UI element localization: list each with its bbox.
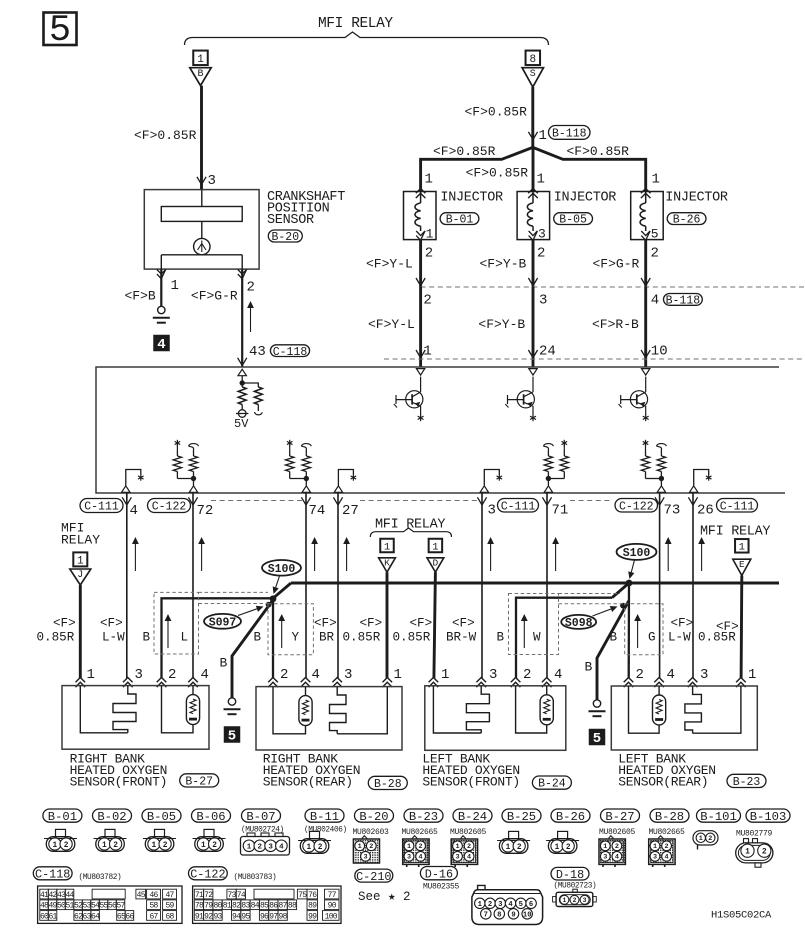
svg-text:(MU803782): (MU803782) <box>79 874 122 882</box>
wire 0.85R to B-28 pin1 <box>386 572 389 678</box>
connector label B-101 <box>697 809 741 822</box>
connector label B-11 <box>305 809 344 822</box>
svg-text:4: 4 <box>615 854 619 862</box>
internal stub <box>334 486 342 493</box>
svg-text:<F>: <F> <box>671 617 694 631</box>
svg-text:61: 61 <box>48 912 57 921</box>
wire (F)B to ground <box>160 269 162 306</box>
svg-text:81: 81 <box>223 902 232 911</box>
connector label B-103 <box>746 809 790 822</box>
svg-text:2: 2 <box>615 843 619 851</box>
shielded cable box (B-24 pins) <box>509 594 559 655</box>
svg-text:B-103: B-103 <box>750 810 787 824</box>
svg-text:2: 2 <box>665 843 669 851</box>
svg-text:1: 1 <box>425 172 433 188</box>
svg-text:4: 4 <box>554 667 562 683</box>
svg-text:<F>: <F> <box>410 617 433 631</box>
svg-text:82: 82 <box>232 902 241 911</box>
svg-text:92: 92 <box>204 912 213 921</box>
svg-text:S097: S097 <box>209 616 237 629</box>
svg-text:98: 98 <box>279 912 288 921</box>
ECU box <box>96 367 785 493</box>
svg-text:3: 3 <box>539 293 547 309</box>
svg-text:MU802605: MU802605 <box>599 828 636 837</box>
svg-text:2: 2 <box>369 843 373 851</box>
connector icon B-11 <box>310 831 320 838</box>
svg-text:4: 4 <box>508 901 513 909</box>
svg-text:D-18: D-18 <box>556 868 584 882</box>
wire to B-23 pin 2 <box>628 583 631 679</box>
splice S100 (right) <box>626 580 633 587</box>
sensor pin 2 <box>238 270 247 275</box>
svg-text:W: W <box>533 631 541 645</box>
svg-text:<F>: <F> <box>53 617 76 631</box>
svg-text:4: 4 <box>201 667 209 683</box>
svg-text:B-28: B-28 <box>655 810 684 824</box>
internal stub <box>480 486 488 493</box>
connector icon B-02 <box>105 829 115 836</box>
svg-text:1: 1 <box>307 844 312 852</box>
transistor Q1 <box>416 369 424 376</box>
svg-text:4: 4 <box>419 854 423 862</box>
pin grid C-122 <box>193 886 341 923</box>
svg-text:<F>: <F> <box>360 617 383 631</box>
svg-text:B-01: B-01 <box>48 810 77 824</box>
connector icon B-27 <box>609 836 614 839</box>
svg-text:83: 83 <box>241 902 250 911</box>
transistor Q2 <box>529 369 537 376</box>
connector label B-28 <box>650 809 689 822</box>
wire injector pin 2 <box>419 240 422 287</box>
svg-text:5V: 5V <box>234 417 249 431</box>
svg-text:B-27: B-27 <box>185 776 213 789</box>
svg-text:1: 1 <box>197 54 204 66</box>
connector label C-118 <box>33 867 72 880</box>
svg-text:<F>: <F> <box>452 617 475 631</box>
svg-text:43: 43 <box>249 344 266 360</box>
svg-text:H1S05C02CA: H1S05C02CA <box>711 910 772 922</box>
wire (F)0.85R to crankshaft sensor <box>200 86 203 190</box>
svg-text:SENSOR: SENSOR <box>267 213 314 228</box>
svg-text:2: 2 <box>258 844 263 852</box>
svg-text:84: 84 <box>251 902 260 911</box>
svg-text:1: 1 <box>506 844 511 852</box>
svg-text:5: 5 <box>593 731 601 747</box>
connector icon B-28 <box>658 836 663 839</box>
svg-text:B: B <box>197 69 203 80</box>
transistor Q3 <box>642 369 650 376</box>
svg-text:<F>Y-L: <F>Y-L <box>366 257 413 272</box>
svg-text:5: 5 <box>228 729 236 745</box>
pin entry chevrons <box>76 678 86 683</box>
svg-text:26: 26 <box>697 503 714 519</box>
triangle J <box>70 569 91 585</box>
svg-text:1: 1 <box>384 541 390 553</box>
wire 0.85R to B-24 pin1 <box>434 572 436 678</box>
svg-text:0.85R: 0.85R <box>698 631 736 645</box>
svg-text:B-28: B-28 <box>374 778 402 791</box>
svg-text:B-118: B-118 <box>552 128 587 141</box>
svg-text:2: 2 <box>636 667 644 683</box>
svg-text:7: 7 <box>484 911 488 919</box>
splice S100 (left) <box>273 583 291 598</box>
internal stub <box>690 486 698 493</box>
svg-text:2: 2 <box>64 842 69 850</box>
svg-text:72: 72 <box>204 891 213 900</box>
svg-text:2: 2 <box>280 667 288 683</box>
svg-text:74: 74 <box>309 503 326 519</box>
svg-text:B-27: B-27 <box>605 810 634 824</box>
svg-text:<F>Y-B: <F>Y-B <box>480 257 527 272</box>
svg-text:3: 3 <box>407 854 411 862</box>
svg-text:1: 1 <box>739 542 745 554</box>
svg-text:See ★ 2: See ★ 2 <box>358 890 411 904</box>
ECU output wires to sensors <box>126 493 128 679</box>
svg-text:MFI RELAY: MFI RELAY <box>700 525 770 540</box>
wire to B-27 pin 2 <box>162 598 274 678</box>
svg-text:C-210: C-210 <box>356 870 391 884</box>
svg-text:1: 1 <box>745 848 750 857</box>
svg-text:6: 6 <box>529 901 533 909</box>
svg-text:5: 5 <box>49 10 71 52</box>
svg-text:2: 2 <box>573 897 577 904</box>
svg-text:4: 4 <box>665 854 669 862</box>
svg-text:2: 2 <box>247 280 255 296</box>
svg-text:1: 1 <box>247 844 252 852</box>
sensor inner element <box>161 207 242 222</box>
svg-text:INJECTOR: INJECTOR <box>554 191 617 206</box>
injector B-26 <box>631 192 664 240</box>
svg-text:<F>R-B: <F>R-B <box>592 317 639 332</box>
svg-text:2: 2 <box>163 842 168 850</box>
connector label B-07 <box>242 809 281 822</box>
svg-text:1: 1 <box>441 667 449 683</box>
svg-text:3: 3 <box>653 854 657 862</box>
svg-text:1: 1 <box>652 172 660 188</box>
svg-text:C-122: C-122 <box>619 500 654 513</box>
svg-text:C-111: C-111 <box>84 501 119 514</box>
svg-text:2: 2 <box>318 844 323 852</box>
heated oxygen sensor box <box>425 686 566 751</box>
sensor pickup circle <box>194 238 210 254</box>
svg-text:B: B <box>585 660 593 675</box>
connector icon B-26 <box>558 831 568 838</box>
svg-text:(MU802406): (MU802406) <box>304 827 347 835</box>
svg-text:B: B <box>220 656 228 671</box>
svg-text:2: 2 <box>566 844 571 852</box>
svg-text:85: 85 <box>260 902 269 911</box>
svg-text:4: 4 <box>467 854 471 862</box>
svg-text:2: 2 <box>488 901 492 909</box>
svg-text:INJECTOR: INJECTOR <box>440 191 503 206</box>
internal resistor pair <box>193 450 195 456</box>
svg-text:57: 57 <box>116 902 125 911</box>
triangle B <box>190 68 211 86</box>
svg-text:86: 86 <box>269 902 278 911</box>
svg-text:1: 1 <box>562 897 566 904</box>
svg-text:2: 2 <box>651 246 659 262</box>
connector label D-18 <box>551 867 589 880</box>
svg-text:2: 2 <box>523 667 531 683</box>
svg-text:1: 1 <box>455 843 459 851</box>
svg-text:1: 1 <box>426 227 434 242</box>
svg-text:<F>: <F> <box>314 617 337 631</box>
injector B-01 <box>404 192 437 240</box>
svg-text:B: B <box>610 631 618 645</box>
connector icon B-24 <box>461 836 466 839</box>
svg-text:MU802665: MU802665 <box>649 828 686 837</box>
svg-text:1: 1 <box>555 844 560 852</box>
internal resistor pair <box>547 450 549 456</box>
svg-text:<F>0.85R: <F>0.85R <box>433 144 496 159</box>
arrows in shield boxes <box>167 620 169 648</box>
connector label B-25 <box>502 809 541 822</box>
page number 5 <box>44 13 77 46</box>
svg-text:1: 1 <box>394 667 402 683</box>
svg-text:<F>0.85R: <F>0.85R <box>134 128 197 143</box>
svg-text:2: 2 <box>517 844 522 852</box>
svg-text:<F>: <F> <box>100 617 123 631</box>
wire injector pin 2 <box>532 240 535 287</box>
connector label B-27 <box>601 809 640 822</box>
svg-text:93: 93 <box>213 912 222 921</box>
injector B-05 <box>517 192 550 240</box>
svg-text:5: 5 <box>519 901 523 909</box>
svg-text:2: 2 <box>212 842 217 850</box>
svg-text:58: 58 <box>149 902 158 911</box>
svg-text:24: 24 <box>539 344 556 360</box>
ECU input 43: 5V pull-up circuit <box>238 369 246 376</box>
svg-text:B-25: B-25 <box>507 810 536 824</box>
svg-text:3: 3 <box>489 667 497 683</box>
svg-text:B-05: B-05 <box>147 810 176 824</box>
svg-text:3: 3 <box>344 667 352 683</box>
svg-text:SENSOR(FRONT): SENSOR(FRONT) <box>422 775 520 790</box>
svg-text:MU802603: MU802603 <box>353 828 390 837</box>
svg-text:D-16: D-16 <box>425 867 453 881</box>
svg-text:95: 95 <box>241 912 250 921</box>
shielded cable box (B-28 pins) <box>268 604 313 655</box>
svg-text:0.85R: 0.85R <box>343 631 381 645</box>
svg-text:3: 3 <box>208 173 216 189</box>
internal resistor pair <box>305 450 307 456</box>
svg-text:B-23: B-23 <box>409 810 438 824</box>
heated oxygen sensor box <box>62 686 209 750</box>
svg-text:27: 27 <box>342 503 359 519</box>
svg-text:C-111: C-111 <box>501 500 536 513</box>
svg-text:89: 89 <box>308 902 317 911</box>
svg-text:B-20: B-20 <box>359 810 388 824</box>
svg-text:44: 44 <box>65 891 74 900</box>
internal stub <box>122 486 130 493</box>
wire 0.85R to B-27 pin1 <box>79 585 82 679</box>
svg-text:B-24: B-24 <box>538 778 566 791</box>
svg-text:RELAY: RELAY <box>61 533 100 548</box>
svg-text:BR: BR <box>319 631 335 645</box>
svg-text:<F>G-R: <F>G-R <box>593 257 640 272</box>
wire to B-28 pin 2 <box>272 599 274 679</box>
svg-text:L: L <box>181 631 189 645</box>
svg-text:3: 3 <box>363 854 367 862</box>
svg-text:B-118: B-118 <box>666 295 701 308</box>
connector label B-06 <box>192 809 231 822</box>
sensing element <box>540 695 553 725</box>
svg-text:<F>0.85R: <F>0.85R <box>466 166 529 181</box>
svg-text:2: 2 <box>537 246 545 262</box>
svg-text:1: 1 <box>171 278 179 294</box>
svg-text:3: 3 <box>268 844 273 852</box>
svg-text:78: 78 <box>195 902 204 911</box>
svg-text:2: 2 <box>168 667 176 683</box>
svg-text:D: D <box>433 558 439 569</box>
connector icon D-18 <box>573 889 578 892</box>
terminal 8 (MFI relay, right) <box>526 51 541 66</box>
svg-text:S100: S100 <box>268 563 296 576</box>
sensing element <box>299 696 312 726</box>
wire (F)G-R to ECU pin 43 <box>241 269 243 367</box>
svg-text:64: 64 <box>91 912 100 921</box>
svg-text:73: 73 <box>227 891 236 900</box>
svg-text:MU802605: MU802605 <box>450 828 487 837</box>
svg-text:MFI RELAY: MFI RELAY <box>318 16 393 32</box>
ground wire B (right) <box>597 601 629 700</box>
shield link lines <box>199 591 269 593</box>
svg-text:INJECTOR: INJECTOR <box>665 191 728 206</box>
svg-text:C-122: C-122 <box>190 868 225 882</box>
node 1 B-118 <box>528 132 537 140</box>
svg-text:3: 3 <box>488 503 496 519</box>
heated oxygen sensor box <box>611 686 757 750</box>
svg-text:3: 3 <box>498 901 502 909</box>
svg-text:68: 68 <box>165 912 174 921</box>
splice S098 <box>620 603 626 609</box>
connector icon B-23 <box>412 836 417 839</box>
connector row C-111 / C-122 <box>211 500 303 502</box>
terminal 1 (MFI relay, left) <box>193 51 208 66</box>
svg-text:2: 2 <box>762 848 767 857</box>
ground (right B wire) <box>593 700 600 707</box>
svg-text:S100: S100 <box>623 547 651 560</box>
ground ref 5 <box>224 726 241 743</box>
svg-text:4: 4 <box>130 503 138 519</box>
heater element <box>80 686 128 733</box>
svg-text:B-06: B-06 <box>196 810 225 824</box>
svg-text:MU802779: MU802779 <box>736 830 773 839</box>
svg-text:E: E <box>739 559 745 570</box>
connector label B-20 <box>355 809 394 822</box>
splice label S098 <box>561 615 596 629</box>
svg-text:2: 2 <box>423 293 431 309</box>
splice label S100 (left) <box>262 560 301 576</box>
svg-text:4: 4 <box>279 844 284 852</box>
svg-text:10: 10 <box>651 344 668 360</box>
connector icon B-05 <box>155 829 165 836</box>
heater element <box>693 686 741 733</box>
svg-text:G: G <box>648 631 656 645</box>
splice label S097 <box>204 614 241 629</box>
svg-text:SENSOR(REAR): SENSOR(REAR) <box>618 775 708 790</box>
sensor pin 1 <box>157 270 166 275</box>
svg-text:L-W: L-W <box>102 631 125 645</box>
svg-text:S: S <box>530 69 536 80</box>
svg-text:100: 100 <box>325 912 338 921</box>
connector label B-05 <box>142 809 181 822</box>
svg-text:1: 1 <box>699 835 703 843</box>
svg-text:<F>Y-L: <F>Y-L <box>368 317 415 332</box>
svg-text:<F>Y-B: <F>Y-B <box>478 317 525 332</box>
svg-text:1: 1 <box>358 843 362 851</box>
connector label D-16 <box>420 867 457 880</box>
heater element <box>433 686 481 733</box>
svg-text:2: 2 <box>113 842 118 850</box>
svg-text:1: 1 <box>53 842 58 850</box>
ground (left B wire) <box>228 698 235 705</box>
shielded cable box (B-23 pins) <box>625 604 663 655</box>
connector icon B-25 <box>509 831 519 838</box>
svg-text:9: 9 <box>511 911 515 919</box>
svg-text:1: 1 <box>539 128 547 144</box>
svg-text:96: 96 <box>260 912 269 921</box>
svg-text:1: 1 <box>201 842 206 850</box>
svg-text:<F>G-R: <F>G-R <box>191 289 238 304</box>
svg-text:1: 1 <box>102 842 107 850</box>
svg-text:88: 88 <box>288 902 297 911</box>
svg-text:59: 59 <box>165 902 174 911</box>
ground wire B (left) <box>232 600 273 698</box>
svg-text:S098: S098 <box>565 617 593 630</box>
wire injector pin 2 <box>644 240 647 287</box>
svg-text:L-W: L-W <box>668 631 691 645</box>
svg-text:3: 3 <box>455 854 459 862</box>
ground ref 4 <box>153 335 170 352</box>
svg-text:2: 2 <box>467 843 471 851</box>
svg-text:3: 3 <box>603 854 607 862</box>
svg-text:46: 46 <box>149 891 158 900</box>
connector C-118 dashed line <box>384 358 805 360</box>
heated oxygen sensor box <box>256 687 402 750</box>
svg-text:C-118: C-118 <box>35 868 70 882</box>
comparator branch resistor <box>242 383 258 387</box>
svg-text:8: 8 <box>529 54 536 66</box>
triangle E <box>733 559 751 575</box>
pin grid C-118 <box>38 886 182 923</box>
connector label B-02 <box>93 809 132 822</box>
svg-text:C-122: C-122 <box>152 501 187 514</box>
svg-text:SENSOR(REAR): SENSOR(REAR) <box>263 775 353 790</box>
svg-text:94: 94 <box>232 912 241 921</box>
sensing element <box>653 695 666 725</box>
svg-text:3: 3 <box>538 227 546 242</box>
svg-text:45: 45 <box>137 891 146 900</box>
connector icon D-16 <box>478 885 485 889</box>
splice S097 <box>266 602 272 608</box>
svg-text:B-24: B-24 <box>458 810 487 824</box>
svg-text:1: 1 <box>152 842 157 850</box>
svg-text:J: J <box>77 570 83 581</box>
svg-text:1: 1 <box>537 172 545 188</box>
svg-text:C-118: C-118 <box>273 346 308 359</box>
connector icon B-101 <box>693 831 718 845</box>
internal resistor pair <box>660 450 662 456</box>
connector label B-23 <box>404 809 443 822</box>
svg-text:2: 2 <box>425 246 433 262</box>
svg-text:0.85R: 0.85R <box>393 631 431 645</box>
svg-text:4: 4 <box>651 293 659 309</box>
svg-text:B-20: B-20 <box>271 231 299 244</box>
svg-text:8: 8 <box>497 911 501 919</box>
svg-text:B-05: B-05 <box>559 214 587 227</box>
svg-text:K: K <box>384 558 390 569</box>
